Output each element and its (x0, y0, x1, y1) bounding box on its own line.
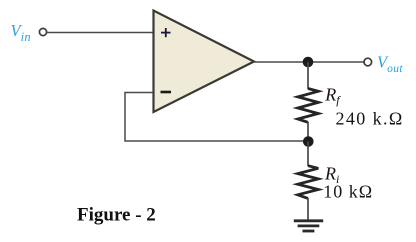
wire resistor Ri to ground (307, 198, 309, 221)
terminal Vin (open circle) (39, 28, 46, 35)
pin label + (non-inverting input) (161, 28, 171, 37)
wire feedback path from - input down and right to node B (125, 93, 308, 142)
op-amp U1 triangle (154, 11, 255, 113)
resistor Rf zigzag (298, 89, 319, 123)
svg-text:240 k.Ω: 240 k.Ω (336, 108, 404, 128)
wire resistor Rf to node B (307, 122, 309, 142)
svg-text:Figure - 2: Figure - 2 (77, 205, 156, 226)
wire op-amp output to Vout terminal (253, 61, 364, 63)
svg-text:Vout: Vout (377, 52, 403, 75)
wire node A to resistor Rf (307, 62, 309, 89)
pin label - (inverting input) (161, 91, 172, 94)
terminal Vout (open circle) (364, 58, 372, 66)
svg-text:Vin: Vin (11, 21, 31, 44)
node A output junction (303, 57, 314, 68)
resistor Ri zigzag (298, 166, 319, 199)
svg-text:Rf: Rf (324, 84, 341, 107)
wire node B to resistor Ri (307, 142, 309, 167)
ground symbol (294, 221, 323, 231)
node B feedback junction (303, 136, 314, 147)
svg-text:10 kΩ: 10 kΩ (323, 181, 373, 201)
wire Vin terminal to op-amp + input (47, 32, 154, 34)
